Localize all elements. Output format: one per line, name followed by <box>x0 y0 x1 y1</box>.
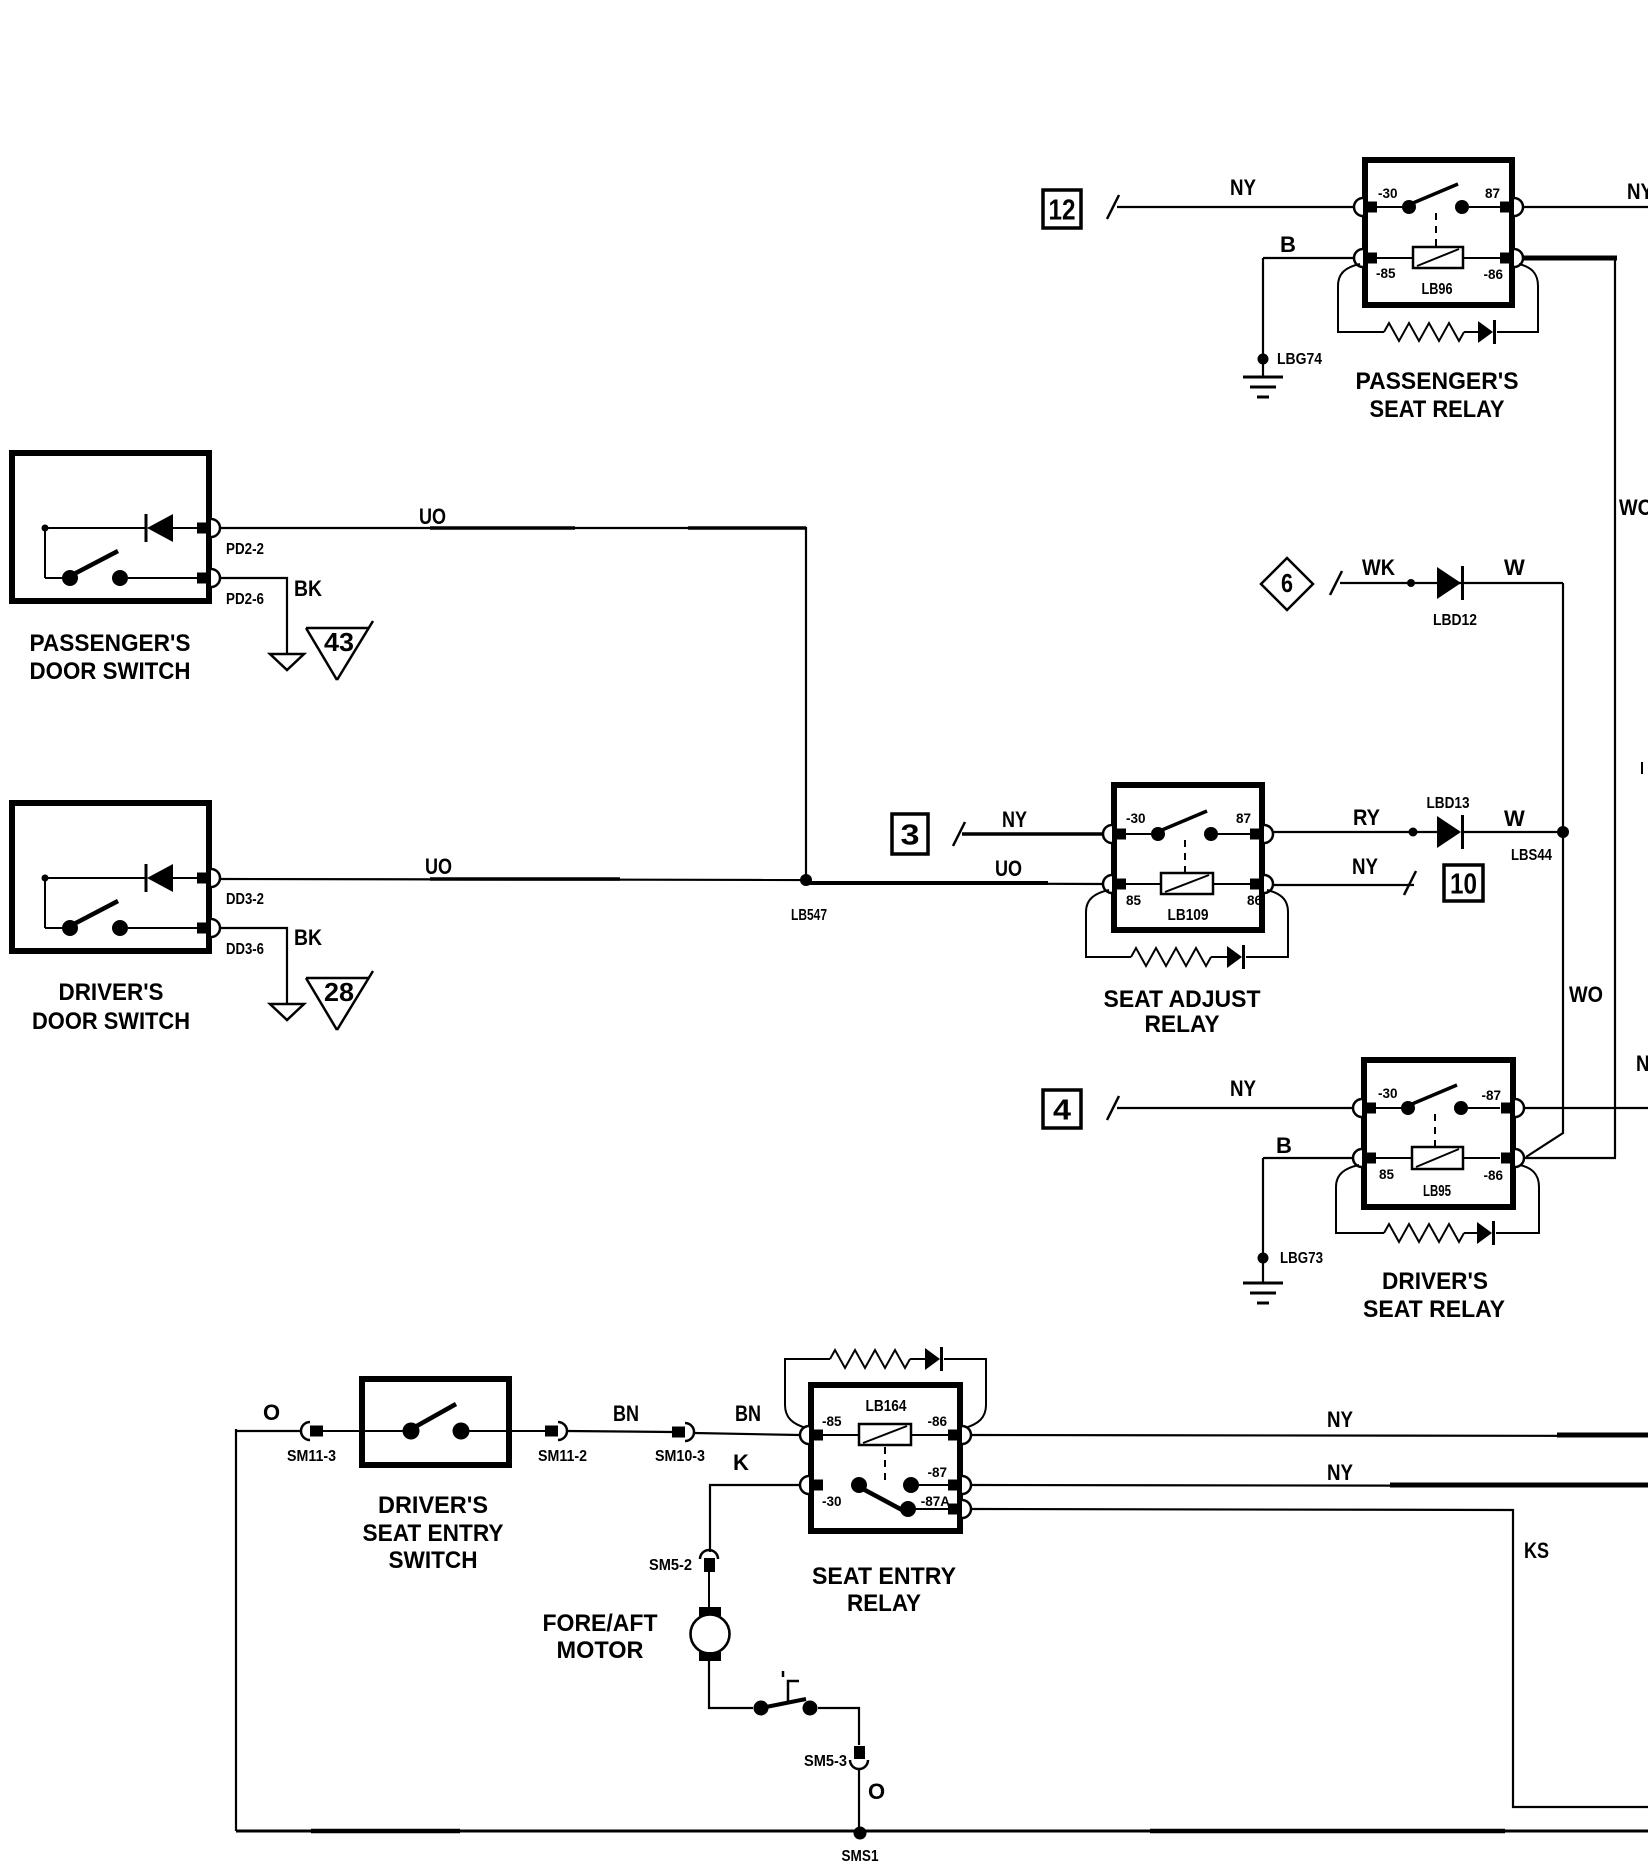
wire contact to pin -87A <box>916 1508 948 1510</box>
svg-text:NY: NY <box>1230 175 1256 200</box>
slash on NY wire at connector 4 <box>1107 1096 1119 1120</box>
wire B from pin -85 <box>1263 257 1353 259</box>
wire BK driver door switch <box>221 928 287 1004</box>
relay switch contacts passenger seat relay <box>1402 184 1469 214</box>
svg-text:-30: -30 <box>822 1494 842 1509</box>
svg-text:SEAT ADJUST: SEAT ADJUST <box>1104 986 1261 1013</box>
wire node down to switch <box>44 878 46 928</box>
vertical wire W/WO down right side <box>1526 583 1563 1157</box>
relay coil LB95 <box>1412 1147 1463 1169</box>
svg-text:SEAT ENTRY: SEAT ENTRY <box>363 1520 504 1547</box>
relay actuator dashed link <box>1184 840 1186 872</box>
earth ground LBG74 <box>1243 377 1283 397</box>
svg-text:BK: BK <box>294 925 322 950</box>
wire UO thick segment 2 <box>430 877 620 881</box>
svg-text:43: 43 <box>324 627 354 657</box>
wire O left vertical <box>235 1429 237 1831</box>
svg-text:-85: -85 <box>822 1414 842 1429</box>
switch contacts driver seat entry switch <box>403 1404 470 1440</box>
wire coil to pin 86 <box>1213 883 1250 885</box>
svg-text:DD3-2: DD3-2 <box>226 891 264 908</box>
svg-text:3: 3 <box>901 820 920 852</box>
suppression loop left leg driver seat relay <box>1336 1165 1384 1233</box>
relay actuator dashed link passenger seat relay <box>1435 213 1437 246</box>
relay coil LB164 <box>859 1424 911 1445</box>
wire diode to pin DD3-2 <box>173 877 200 879</box>
junction node LB547 <box>800 874 812 886</box>
seat adjust relay box LB109 <box>1114 785 1262 930</box>
connector box 12 <box>1043 190 1081 228</box>
pin -85 seat entry relay <box>800 1426 823 1444</box>
junction on WK wire <box>1407 579 1415 587</box>
ground chevron passenger door switch <box>270 654 304 670</box>
wire pin -86 to WO vertical <box>1525 1157 1616 1159</box>
svg-text:-86: -86 <box>1483 1168 1503 1183</box>
wire RY from pin 87 <box>1274 831 1437 833</box>
relay switch contacts seat entry relay <box>851 1477 919 1517</box>
suppression diode seat entry relay <box>925 1347 942 1371</box>
wire switch to pin DD3-6 <box>128 927 200 929</box>
wire node down to switch <box>44 528 46 578</box>
wire pin -30 to contact <box>1124 833 1151 835</box>
wire UO thick segment 3 <box>806 881 1048 885</box>
passenger door switch box <box>12 453 209 601</box>
svg-text:86: 86 <box>1247 893 1263 908</box>
wire WK to diode LBD12 <box>1340 582 1563 584</box>
node inside driver door switch <box>42 875 49 882</box>
svg-text:FORE/AFT: FORE/AFT <box>543 1610 658 1637</box>
svg-text:SEAT ENTRY: SEAT ENTRY <box>812 1563 956 1590</box>
slash on WK wire <box>1330 571 1342 595</box>
driver seat entry switch box <box>362 1379 509 1465</box>
svg-text:NY: NY <box>1327 1407 1353 1432</box>
slash on NY wire at connector 12 <box>1107 195 1119 219</box>
svg-text:RELAY: RELAY <box>847 1590 921 1617</box>
wire coil to pin -86 <box>911 1434 948 1436</box>
svg-text:W: W <box>1504 806 1525 831</box>
wire UO into seat adjust relay <box>806 883 1102 884</box>
svg-text:LBG74: LBG74 <box>1277 351 1322 368</box>
ground chevron driver door switch <box>270 1004 304 1020</box>
driver door switch box <box>12 803 209 951</box>
svg-text:SM11-2: SM11-2 <box>538 1448 587 1465</box>
wire into seat entry switch <box>323 1430 403 1432</box>
svg-text:6: 6 <box>1281 568 1293 598</box>
svg-text:UO: UO <box>425 854 452 879</box>
svg-text:RY: RY <box>1353 805 1380 830</box>
diode inside passenger door switch <box>146 514 173 542</box>
svg-text:-86: -86 <box>927 1414 947 1429</box>
wire resistor to diode <box>1464 1232 1477 1234</box>
wire diode to pin PD2-2 <box>173 527 200 529</box>
wire BK passenger door switch <box>221 578 287 654</box>
svg-text:SM10-3: SM10-3 <box>655 1448 705 1465</box>
wire contact to pin 87 <box>1469 206 1500 208</box>
bottom rail thick segment 1 <box>311 1829 460 1834</box>
wire BN SM10-3 to seat entry relay <box>694 1433 799 1435</box>
svg-text:SM11-3: SM11-3 <box>287 1448 336 1465</box>
svg-text:DOOR SWITCH: DOOR SWITCH <box>32 1008 190 1035</box>
relay coil LB109 <box>1161 873 1213 894</box>
wire pin -30 to contact <box>1374 1107 1401 1109</box>
wire limit switch to SM5-3 <box>818 1708 859 1745</box>
junction node LBS44 <box>1557 826 1569 838</box>
diode LBD13 <box>1437 815 1463 849</box>
svg-text:NY: NY <box>1230 1076 1256 1101</box>
wire NY thick segment right 1 <box>1557 1433 1648 1438</box>
wire pin 85 to coil <box>1124 883 1161 885</box>
suppression loop left leg seat adjust relay <box>1086 890 1131 957</box>
limit switch contacts <box>754 1671 818 1716</box>
svg-text:SEAT RELAY: SEAT RELAY <box>1363 1296 1505 1323</box>
wire NY pin -87 seat entry relay to edge <box>972 1485 1648 1486</box>
svg-text:NY: NY <box>1352 854 1378 879</box>
suppression loop right leg driver seat relay <box>1496 1165 1539 1233</box>
wire B from pin 85 <box>1263 1157 1352 1159</box>
svg-text:85: 85 <box>1379 1167 1395 1182</box>
svg-text:B: B <box>1276 1133 1292 1158</box>
wire node to diode <box>45 527 146 529</box>
diode inside driver door switch <box>146 864 173 892</box>
svg-text:DOOR SWITCH: DOOR SWITCH <box>30 658 191 685</box>
svg-text:DRIVER'S: DRIVER'S <box>59 979 164 1006</box>
suppression loop right leg seat entry relay <box>944 1359 986 1428</box>
pin 85 driver seat relay <box>1353 1149 1376 1167</box>
wire out of seat entry switch <box>469 1430 545 1432</box>
svg-text:28: 28 <box>324 977 354 1007</box>
svg-text:87: 87 <box>1485 186 1500 201</box>
pin -87 seat entry relay <box>948 1476 971 1494</box>
svg-text:MOTOR: MOTOR <box>557 1637 644 1664</box>
suppression diode passenger seat relay <box>1478 320 1495 344</box>
pin DD3-2 <box>197 869 220 887</box>
svg-text:BN: BN <box>735 1401 761 1426</box>
svg-text:10: 10 <box>1450 869 1477 901</box>
svg-text:-85: -85 <box>1376 266 1396 281</box>
svg-text:-30: -30 <box>1378 1086 1398 1101</box>
svg-text:K: K <box>733 1450 749 1475</box>
wire node to contact <box>45 927 62 929</box>
in-line connector diamond 6 <box>1261 558 1313 610</box>
relay actuator dashed link seat entry relay <box>884 1447 886 1481</box>
svg-text:-30: -30 <box>1126 811 1146 826</box>
svg-text:LBD13: LBD13 <box>1427 795 1470 812</box>
junction node SMS1 <box>854 1827 867 1840</box>
svg-text:4: 4 <box>1053 1095 1071 1127</box>
svg-text:SEAT RELAY: SEAT RELAY <box>1370 396 1505 423</box>
svg-text:SM5-2: SM5-2 <box>649 1557 692 1574</box>
relay switch contacts driver seat relay <box>1401 1085 1468 1115</box>
suppression resistor driver seat relay <box>1384 1224 1464 1242</box>
wire BN SM11-2 to SM10-3 <box>567 1431 672 1432</box>
wire UO from driver door switch <box>221 879 806 880</box>
switch contacts driver door switch <box>62 901 128 936</box>
wire coil to pin -86 <box>1463 1157 1500 1159</box>
svg-text:85: 85 <box>1126 893 1142 908</box>
wire WO from pin -86 thick <box>1522 256 1617 261</box>
relay switch contacts <box>1151 811 1218 841</box>
wire UO thick segment b <box>688 526 806 530</box>
switch contacts passenger door switch <box>62 551 128 586</box>
pin -30 seat entry relay <box>800 1476 823 1494</box>
suppression loop left leg passenger seat relay <box>1338 264 1384 332</box>
wire contact to pin 87 <box>1218 833 1250 835</box>
wire motor to limit switch <box>709 1660 753 1708</box>
pin -86 driver seat relay <box>1501 1149 1524 1167</box>
svg-text:LB95: LB95 <box>1423 1183 1451 1200</box>
wire node to diode <box>45 877 146 879</box>
wire NY from pin -87 to edge <box>1524 1107 1648 1109</box>
svg-text:-30: -30 <box>1378 186 1398 201</box>
ground splice LBG73 <box>1258 1253 1269 1264</box>
svg-text:DD3-6: DD3-6 <box>226 941 264 958</box>
svg-text:NY: NY <box>1636 1051 1648 1076</box>
svg-text:LB547: LB547 <box>791 907 827 924</box>
svg-text:LB96: LB96 <box>1422 281 1453 298</box>
svg-text:-87A: -87A <box>921 1494 951 1509</box>
pin -87 driver seat relay <box>1501 1099 1524 1117</box>
wire K pin -30 to fore/aft motor <box>710 1485 799 1552</box>
suppression loop right leg seat adjust relay <box>1246 890 1288 957</box>
wire pin -85 to coil <box>823 1434 859 1436</box>
suppression diode driver seat relay <box>1477 1221 1494 1245</box>
ground reference triangle 28 <box>306 971 373 1030</box>
wire O to SM11-3 <box>236 1430 301 1432</box>
earth ground LBG73 <box>1243 1283 1283 1303</box>
ground reference triangle 43 <box>306 621 373 680</box>
wire resistor to diode <box>910 1358 925 1360</box>
pin 86 seat adjust relay <box>1250 875 1273 893</box>
svg-text:WK: WK <box>1362 555 1395 580</box>
svg-text:NY: NY <box>1002 807 1027 832</box>
svg-text:DRIVER'S: DRIVER'S <box>378 1492 488 1519</box>
pin DD3-6 <box>197 919 220 937</box>
svg-text:O: O <box>868 1779 885 1804</box>
wire resistor to diode <box>1211 956 1227 958</box>
svg-text:UO: UO <box>995 856 1022 881</box>
pin PD2-6 <box>197 569 220 587</box>
svg-text:LBG73: LBG73 <box>1280 1250 1323 1267</box>
ground splice LBG74 <box>1258 354 1269 365</box>
wire B down to ground LBG73 <box>1262 1158 1264 1283</box>
svg-text:SMS1: SMS1 <box>842 1848 879 1865</box>
relay coil LB96 <box>1413 247 1463 268</box>
svg-text:PASSENGER'S: PASSENGER'S <box>1356 368 1519 395</box>
slash on NY wire to connector 10 <box>1404 871 1416 895</box>
svg-text:LBD12: LBD12 <box>1433 612 1477 629</box>
wire W from LBD13 <box>1464 831 1563 833</box>
svg-text:B: B <box>1280 232 1296 257</box>
wire pin -30 to contact <box>1375 206 1402 208</box>
suppression diode seat adjust relay <box>1227 945 1244 969</box>
pin 87 passenger seat relay <box>1500 198 1523 216</box>
svg-text:-87: -87 <box>1481 1088 1501 1103</box>
wire UO from passenger door switch <box>221 528 806 880</box>
bottom rail wire <box>236 1830 1648 1833</box>
suppression resistor seat adjust relay <box>1131 948 1211 966</box>
diode LBD12 <box>1437 566 1463 600</box>
pin -85 passenger seat relay <box>1354 249 1377 267</box>
driver seat relay box LB95 <box>1364 1060 1513 1207</box>
svg-text:-86: -86 <box>1483 267 1503 282</box>
wire NY thick segment right 2 <box>1390 1483 1648 1488</box>
svg-text:KS: KS <box>1524 1538 1549 1563</box>
wire resistor to diode <box>1464 331 1478 333</box>
pin -86 seat entry relay <box>948 1426 971 1444</box>
svg-text:BN: BN <box>613 1401 639 1426</box>
wire WO vertical down right side <box>1614 256 1616 1158</box>
suppression resistor passenger seat relay <box>1384 323 1464 341</box>
svg-text:PD2-2: PD2-2 <box>226 541 264 558</box>
seat entry relay box LB164 <box>811 1385 960 1531</box>
wire pin 85 to coil <box>1374 1157 1412 1159</box>
wire switch to pin PD2-6 <box>128 577 200 579</box>
suppression loop right leg passenger seat relay <box>1497 264 1538 332</box>
connector box 4 <box>1043 1090 1081 1128</box>
svg-text:BK: BK <box>294 576 322 601</box>
svg-text:UO: UO <box>419 504 446 529</box>
svg-text:87: 87 <box>1236 811 1251 826</box>
svg-text:SM5-3: SM5-3 <box>804 1753 847 1770</box>
pin -30 driver seat relay <box>1353 1099 1376 1117</box>
pin -30 seat adjust relay <box>1103 825 1126 843</box>
svg-text:SWITCH: SWITCH <box>389 1547 478 1574</box>
wire NY from pin 87 to edge <box>1524 206 1648 208</box>
suppression resistor seat entry relay <box>830 1350 910 1368</box>
wire NY connector 4 to relay <box>1117 1107 1352 1109</box>
fore/aft motor <box>691 1607 730 1661</box>
connector box 3 <box>892 814 928 854</box>
junction on RY wire <box>1409 828 1418 837</box>
relay actuator dashed link driver seat relay <box>1434 1114 1436 1146</box>
bottom rail thick segment 2 <box>1150 1829 1505 1834</box>
wire contact to pin -87 <box>919 1484 948 1486</box>
wire KS pin -87A to edge <box>972 1509 1648 1807</box>
svg-text:PASSENGER'S: PASSENGER'S <box>30 630 191 657</box>
svg-text:DRIVER'S: DRIVER'S <box>1382 1268 1488 1295</box>
slash on NY wire at connector 3 <box>953 822 965 846</box>
wire UO thick segment <box>430 526 575 530</box>
svg-text:NY: NY <box>1627 179 1648 204</box>
wire NY from pin 86 <box>1274 884 1414 886</box>
svg-text:LB109: LB109 <box>1168 907 1209 924</box>
connector SM5-3 <box>850 1746 868 1769</box>
connector box 10 <box>1444 865 1483 901</box>
connector SM10-3 <box>672 1423 694 1441</box>
svg-text:LBS44: LBS44 <box>1511 847 1552 864</box>
wire coil to pin -86 <box>1463 257 1500 259</box>
suppression loop left leg seat entry relay <box>785 1359 830 1428</box>
node inside passenger door switch <box>42 525 49 532</box>
wire NY pin -86 seat entry relay to edge <box>972 1435 1648 1436</box>
svg-text:WO: WO <box>1569 982 1603 1007</box>
pin 85 seat adjust relay <box>1103 875 1126 893</box>
passenger seat relay box LB96 <box>1365 160 1512 305</box>
svg-text:RELAY: RELAY <box>1145 1011 1220 1038</box>
wire NY connector 3 to relay <box>962 832 1102 836</box>
connector SM11-2 <box>545 1422 567 1440</box>
wire pin -85 to coil <box>1375 257 1413 259</box>
svg-text:O: O <box>263 1400 280 1425</box>
svg-text:LB164: LB164 <box>866 1398 907 1415</box>
pin PD2-2 <box>197 519 220 537</box>
svg-text:WO: WO <box>1619 495 1648 520</box>
svg-text:NY: NY <box>1327 1460 1353 1485</box>
stray mark right edge <box>1641 762 1643 774</box>
svg-text:-87: -87 <box>927 1465 947 1480</box>
svg-text:PD2-6: PD2-6 <box>226 591 264 608</box>
wire node to contact <box>45 577 62 579</box>
pin -30 passenger seat relay <box>1354 198 1377 216</box>
wire SM5-2 to motor <box>708 1572 710 1614</box>
pin 87 seat adjust relay <box>1250 825 1273 843</box>
pin -86 passenger seat relay <box>1500 249 1523 267</box>
pin -87A seat entry relay <box>948 1500 971 1518</box>
wire contact to pin -87 <box>1468 1107 1500 1109</box>
connector SM11-3 <box>301 1422 323 1440</box>
svg-text:12: 12 <box>1049 195 1076 227</box>
wire NY connector 12 to relay <box>1117 206 1353 208</box>
wire O SM5-3 to bottom rail <box>858 1769 860 1831</box>
wire B down to ground <box>1262 258 1264 377</box>
connector SM5-2 <box>700 1550 718 1572</box>
svg-text:W: W <box>1504 555 1525 580</box>
